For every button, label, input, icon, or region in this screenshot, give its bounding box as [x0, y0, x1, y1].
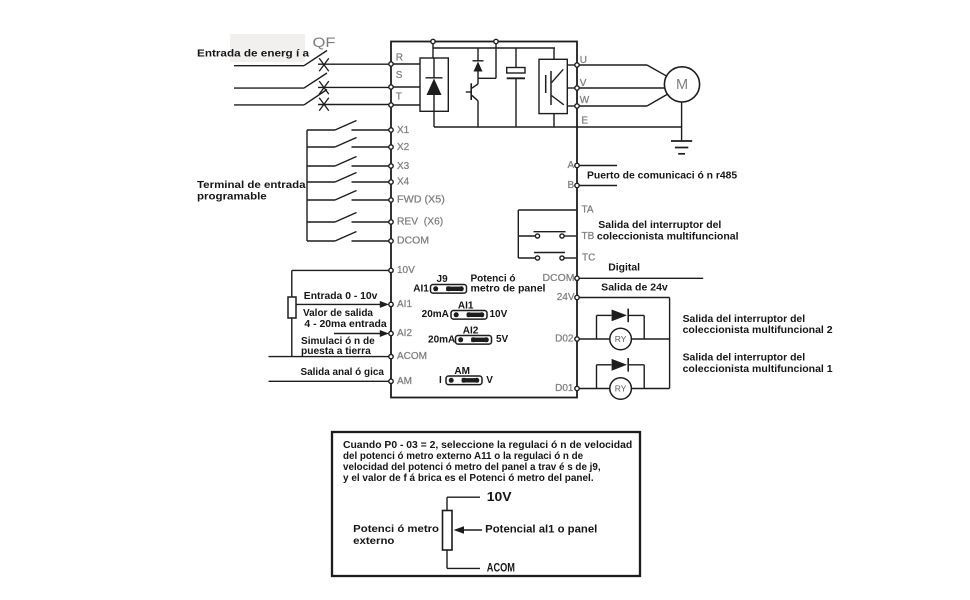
svg-text:RY: RY — [615, 334, 627, 344]
svg-text:DCOM: DCOM — [397, 236, 429, 247]
svg-text:Salida del interruptor del: Salida del interruptor del — [598, 220, 721, 231]
svg-text:E: E — [581, 116, 588, 127]
svg-text:Terminal de entrada: Terminal de entrada — [197, 180, 306, 191]
svg-text:20mA: 20mA — [422, 309, 449, 320]
svg-text:ACOM: ACOM — [487, 560, 515, 574]
svg-text:X4: X4 — [397, 177, 410, 188]
svg-text:metro de panel: metro de panel — [471, 284, 546, 295]
svg-text:X2: X2 — [397, 142, 410, 153]
svg-text:W: W — [580, 95, 590, 106]
svg-text:Cuando P0 - 03 = 2, seleccione: Cuando P0 - 03 = 2, seleccione la regula… — [343, 440, 632, 451]
svg-text:AI1: AI1 — [413, 283, 429, 294]
svg-text:coleccionista multifuncional 2: coleccionista multifuncional 2 — [683, 325, 833, 336]
svg-text:5V: 5V — [496, 334, 509, 345]
svg-text:RY: RY — [615, 384, 627, 394]
svg-text:Entrada de energ í a: Entrada de energ í a — [197, 48, 309, 59]
svg-text:D01: D01 — [555, 383, 574, 394]
svg-text:M: M — [676, 77, 688, 93]
svg-text:24V: 24V — [557, 292, 575, 303]
svg-text:U: U — [580, 55, 587, 66]
svg-text:I: I — [439, 375, 442, 386]
svg-text:V: V — [580, 78, 587, 89]
svg-text:4 - 20ma entrada: 4 - 20ma entrada — [304, 319, 387, 330]
svg-text:10V: 10V — [487, 490, 513, 504]
svg-text:Potencial al1 o panel: Potencial al1 o panel — [485, 524, 597, 536]
svg-text:20mA: 20mA — [428, 334, 455, 345]
svg-text:coleccionista multifuncional: coleccionista multifuncional — [597, 231, 739, 242]
svg-text:Entrada 0 - 10v: Entrada 0 - 10v — [304, 291, 378, 302]
svg-text:FWD (X5): FWD (X5) — [397, 195, 445, 206]
svg-text:AI2: AI2 — [463, 325, 479, 336]
svg-text:S: S — [396, 70, 403, 81]
svg-text:Salida anal ó gica: Salida anal ó gica — [301, 367, 385, 378]
svg-text:A: A — [568, 160, 575, 171]
svg-text:programable: programable — [197, 191, 267, 202]
svg-text:Potenci ó metro: Potenci ó metro — [353, 524, 439, 535]
svg-text:TB: TB — [582, 231, 595, 242]
svg-text:J9: J9 — [437, 274, 449, 285]
svg-text:coleccionista multifuncional 1: coleccionista multifuncional 1 — [683, 364, 833, 375]
svg-text:REV (X6): REV (X6) — [397, 217, 443, 228]
svg-text:V: V — [486, 375, 493, 386]
svg-text:del potenci ó metro externo A1: del potenci ó metro externo A11 o la reg… — [343, 451, 583, 462]
svg-text:Valor de salida: Valor de salida — [303, 308, 373, 319]
svg-text:AM: AM — [454, 366, 470, 377]
svg-text:X1: X1 — [397, 125, 410, 136]
svg-text:QF: QF — [313, 34, 336, 50]
svg-text:TC: TC — [582, 253, 595, 264]
svg-text:Salida de 24v: Salida de 24v — [601, 283, 668, 294]
svg-text:AM: AM — [397, 376, 412, 387]
svg-text:DCOM: DCOM — [543, 273, 575, 284]
svg-text:T: T — [396, 92, 402, 103]
svg-text:B: B — [568, 180, 575, 191]
svg-text:10V: 10V — [397, 265, 415, 276]
svg-text:velocidad del potenci ó metro: velocidad del potenci ó metro del panel … — [343, 462, 601, 473]
svg-text:TA: TA — [582, 205, 594, 216]
svg-text:AI1: AI1 — [397, 299, 412, 310]
svg-text:ACOM: ACOM — [397, 351, 427, 362]
svg-text:R: R — [396, 53, 403, 64]
svg-text:AI2: AI2 — [397, 328, 412, 339]
svg-text:Salida del interruptor del: Salida del interruptor del — [683, 314, 806, 325]
svg-text:X3: X3 — [397, 161, 410, 172]
svg-text:y el valor de f á brica es el: y el valor de f á brica es el Potenci ó … — [343, 473, 594, 484]
svg-text:AI1: AI1 — [458, 301, 474, 312]
svg-text:D02: D02 — [555, 334, 574, 345]
svg-text:externo: externo — [353, 536, 394, 547]
svg-text:Salida del interruptor del: Salida del interruptor del — [683, 353, 806, 364]
svg-text:puesta a tierra: puesta a tierra — [301, 346, 371, 357]
svg-text:Digital: Digital — [608, 263, 640, 274]
svg-text:Puerto de comunicaci ó n r485: Puerto de comunicaci ó n r485 — [587, 171, 737, 182]
svg-text:10V: 10V — [490, 309, 508, 320]
